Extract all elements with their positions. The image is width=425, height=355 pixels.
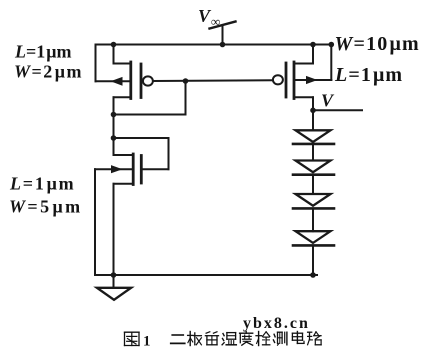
diode D3 bbox=[293, 194, 334, 208]
junction dot diode chain bottom bbox=[310, 272, 316, 278]
wire M1 drain to M3 drain bbox=[113, 97, 115, 155]
wire M2 drain to diode chain bbox=[312, 97, 314, 130]
svg-text:V: V bbox=[321, 91, 335, 111]
diode D4 bbox=[293, 231, 334, 245]
junction Vcc dot bbox=[220, 42, 226, 48]
diode D1 bbox=[293, 130, 334, 144]
wire D4 to ground rail bbox=[312, 245, 314, 275]
junction dot drain node bbox=[111, 112, 117, 118]
transistor M1 PMOS (left) bbox=[96, 45, 153, 99]
transistor M3 NMOS (bottom) bbox=[95, 154, 141, 185]
svg-text:W=5μm: W=5μm bbox=[9, 197, 82, 217]
junction dot M2 body tie bbox=[329, 42, 335, 48]
svg-text:∞: ∞ bbox=[211, 14, 220, 29]
svg-text:L=1μm: L=1μm bbox=[9, 174, 75, 194]
junction dot M1 source bbox=[111, 42, 117, 48]
svg-text:1: 1 bbox=[143, 334, 151, 350]
ground bbox=[97, 275, 131, 300]
junction dot ground node bbox=[111, 272, 117, 278]
svg-text:L=1μm: L=1μm bbox=[14, 42, 71, 62]
junction dot gate node bbox=[183, 78, 189, 84]
svg-text:ybx8.cn: ybx8.cn bbox=[243, 315, 310, 332]
wire Vdd top rail bbox=[96, 44, 332, 46]
label Vcc bbox=[198, 6, 220, 29]
transistor M2 PMOS (right) bbox=[273, 45, 331, 99]
wire V output bbox=[313, 109, 362, 111]
svg-text:L=1μm: L=1μm bbox=[334, 64, 403, 86]
wire gate node M1-M2 bbox=[153, 79, 273, 82]
wire M3 body to ground bbox=[94, 169, 96, 275]
diode D2 bbox=[293, 161, 334, 175]
wire M3 gate tie bbox=[114, 138, 169, 169]
caption 图1 二极管温度检测电路 bbox=[125, 332, 322, 350]
svg-text:W=2μm: W=2μm bbox=[14, 62, 83, 82]
junction dot V node bbox=[310, 108, 316, 114]
power Vcc terminal bbox=[210, 22, 236, 45]
junction dot M2 source bbox=[310, 42, 316, 48]
svg-text:V: V bbox=[198, 6, 212, 26]
wire D2-D3 bbox=[312, 175, 314, 194]
wire ground rail bbox=[95, 274, 317, 276]
wire D1-D2 bbox=[312, 144, 314, 161]
wire gate-to-drain tie bbox=[114, 81, 186, 115]
wire M3 source to ground bbox=[113, 184, 115, 275]
svg-text:W=10μm: W=10μm bbox=[335, 33, 420, 55]
junction dot M3 gate node bbox=[111, 135, 117, 141]
wire D3-D4 bbox=[312, 208, 314, 231]
